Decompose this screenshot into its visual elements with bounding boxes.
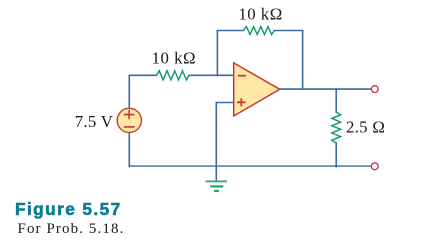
svg-text:For Prob. 5.18.: For Prob. 5.18. (18, 221, 125, 237)
svg-text:10 kΩ: 10 kΩ (152, 49, 196, 68)
svg-text:Figure 5.57: Figure 5.57 (15, 199, 122, 219)
svg-text:2.5 Ω: 2.5 Ω (346, 117, 385, 136)
svg-text:7.5 V: 7.5 V (75, 112, 114, 131)
svg-text:10 kΩ: 10 kΩ (238, 5, 282, 24)
